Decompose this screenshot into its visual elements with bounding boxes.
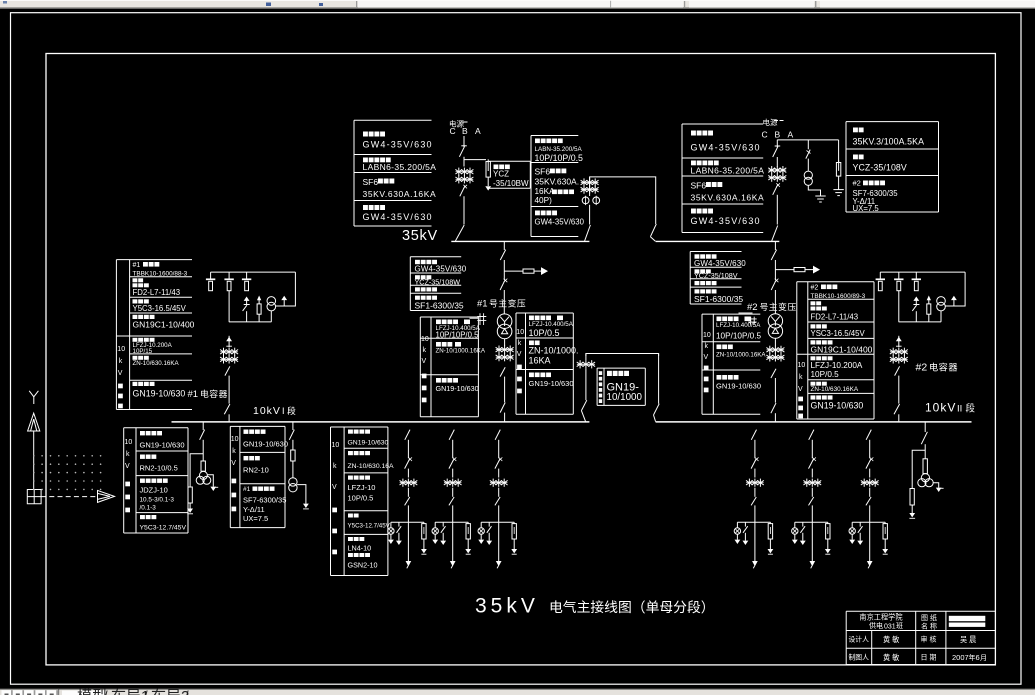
35kV bus tie jumper (590, 177, 656, 179)
disconnector lower (866, 497, 871, 505)
svg-text:图 纸: 图 纸 (921, 613, 937, 622)
capacitor unit #1-c (242, 272, 251, 291)
wire (463, 196, 465, 224)
right rail wire (276, 272, 296, 306)
table PT bay I (GN19/RN2/JDZJ/Y5C8) (124, 428, 188, 533)
breaker (751, 457, 758, 468)
svg-text:/: / (104, 688, 108, 695)
fuse PT-II (923, 459, 927, 474)
voltage transformer (3 windings) (918, 474, 933, 487)
disconnector QS1-3 to bus (455, 225, 464, 241)
svg-text:10: 10 (332, 442, 340, 449)
table #1 capacitor cubicle (116, 260, 192, 410)
label 10kV I段 (253, 405, 296, 417)
table xfmr1 10kV right (LFZJ/ZN/GN19) (516, 313, 573, 414)
label 隔离开关 GN19-10/630 (811, 395, 864, 410)
wire (452, 488, 454, 497)
wire to ground (808, 185, 820, 196)
svg-text:10.5-3/0.1-3: 10.5-3/0.1-3 (140, 497, 175, 504)
disconnector xfmr1-2 (500, 279, 507, 290)
live-line indicator branch (734, 522, 740, 544)
arrow up on rail (951, 296, 957, 306)
svg-text:SF1-6300/35: SF1-6300/35 (694, 294, 743, 304)
label 电流互感器 LABN-35.200/5A 10P/10P/0.5 (535, 139, 584, 164)
svg-text:#1: #1 (133, 262, 141, 269)
capacitor unit #1-b (224, 272, 233, 291)
svg-text:k: k (232, 448, 236, 455)
disconnector (895, 366, 900, 375)
svg-text:V: V (332, 484, 337, 491)
svg-text:k: k (705, 343, 709, 350)
svg-text:10: 10 (798, 362, 806, 369)
wire (534, 270, 542, 272)
capacitor bank #2 top rail (880, 271, 965, 273)
svg-text:10: 10 (125, 439, 133, 446)
neutral grounding glyph (748, 317, 757, 325)
svg-text:10P/10P/0.5: 10P/10P/0.5 (716, 331, 762, 340)
svg-text:35KV.630A.: 35KV.630A. (535, 177, 580, 187)
wire (811, 440, 813, 459)
feeder arrow-up symbol (226, 336, 232, 347)
label 熔断器 LFZJ-10.200A 10P/15 (133, 338, 173, 355)
svg-text:UX=7.5: UX=7.5 (853, 204, 880, 213)
label 接地开关 GN19C1-10/400 (811, 340, 873, 354)
feeder bay II-1 disconnector upper (751, 430, 756, 440)
CT cluster II-1 (746, 479, 764, 487)
svg-text:#2: #2 (811, 284, 819, 291)
name bars (redacted) (949, 616, 986, 627)
svg-text:GW4-35V/630: GW4-35V/630 (363, 140, 433, 150)
label #1主变压器 SF1-6300/35 (415, 296, 464, 311)
disconnector lower (405, 497, 410, 505)
wire (774, 290, 776, 314)
PT output arrow (208, 475, 219, 491)
wire (774, 378, 776, 403)
disconnector xfmr2-2 (771, 279, 778, 290)
disconnector (289, 430, 294, 440)
tab labels 模型 布局1 布局2 (cropped) (62, 688, 189, 695)
table incoming-2 right (fuse/arrester/#2 station xfmr) (846, 122, 939, 212)
svg-text:k: k (423, 347, 427, 354)
earthing switch branch (486, 522, 492, 545)
svg-text:2007: 2007 (952, 653, 969, 662)
disconnector (921, 432, 927, 444)
disconnector (771, 403, 776, 413)
svg-text:号主变压: 号主变压 (489, 298, 526, 309)
svg-text:I: I (282, 406, 285, 416)
label 断路器 ZN-10/1000.16KA (529, 341, 579, 366)
label SF6断路器 35KV.630A.16KA(40P) (535, 167, 580, 206)
table incoming-1 left (GW4/LABN6/SF6/GW4) (354, 120, 432, 226)
svg-text:Y-Δ/11: Y-Δ/11 (243, 505, 265, 514)
arrester branch (465, 522, 471, 554)
contact tick (775, 145, 781, 147)
wire (407, 488, 409, 497)
disconnector tie-10 left (581, 400, 586, 421)
svg-text:RN2-10: RN2-10 (243, 466, 269, 475)
wire fuse branch (504, 270, 523, 272)
live-line indicator branch (478, 522, 484, 544)
label 避雷器 YSC3-16.5/45V (811, 324, 866, 338)
live-line indicator branch (432, 522, 438, 544)
arrester branch (257, 297, 261, 322)
label 电流互感器 LFZJ-10.400/5A 10P/0.5 (529, 316, 574, 339)
cable wire (811, 505, 813, 561)
arrester F1 (YCZ-35) (485, 159, 491, 190)
tap rail (852, 521, 885, 523)
label 隔离开关 GN19-10/630 (243, 430, 288, 449)
title block frame (846, 611, 995, 664)
feeder bay II-2 disconnector upper (809, 430, 814, 440)
10kV bus tie jumper (586, 354, 659, 357)
column text 10kV开关柜 (421, 336, 429, 402)
svg-text:GN19-10/630: GN19-10/630 (716, 382, 761, 391)
wire (452, 440, 454, 459)
label 电抗器 FD2-L7-11/43 (811, 301, 859, 321)
CT cluster xfmr2 10kV (766, 346, 784, 362)
svg-text:Y5C3-12.7/45V: Y5C3-12.7/45V (140, 525, 187, 532)
wire (504, 339, 506, 346)
svg-text:LFZJ-10.200A: LFZJ-10.200A (811, 361, 863, 370)
svg-text:Y5C3-12.7/45V: Y5C3-12.7/45V (348, 523, 391, 530)
label 电流互感器 LFZJ-10.400/5A 10P/10P/0.5 (436, 320, 481, 340)
svg-text:LFZJ-10.400/5A: LFZJ-10.400/5A (716, 322, 761, 329)
svg-text:ZN-10/1000.16KA: ZN-10/1000.16KA (436, 348, 486, 355)
cable wire (754, 505, 756, 561)
svg-text:月: 月 (980, 654, 987, 662)
feeder bay I-3 disconnector upper (495, 430, 500, 440)
svg-text:k: k (518, 340, 522, 347)
wire arrester branch 1 (464, 159, 486, 161)
disconnector xfmr1-35kV (500, 250, 505, 260)
label 电流互感器 LABN6-35.200/5A (row2) (363, 158, 437, 173)
capacitor unit #2-c (912, 272, 921, 291)
output arrow (297, 485, 309, 509)
grounding switch branch (243, 297, 250, 322)
cable wire (407, 505, 409, 561)
svg-text:LFZJ-10: LFZJ-10 (348, 483, 376, 492)
tap rail (435, 521, 468, 523)
CT cluster I-3 (490, 479, 508, 487)
svg-text:YCZ: YCZ (493, 170, 509, 179)
svg-text:10: 10 (117, 346, 125, 353)
disconnector tie-35 right (650, 224, 656, 241)
svg-text:V: V (517, 351, 522, 358)
svg-text:RN2-10/0.5: RN2-10/0.5 (140, 464, 178, 473)
earthing switch branch (800, 522, 806, 545)
wire (292, 461, 294, 478)
label #1电容器 TBBK10-1600/88-3 (133, 262, 188, 278)
wire fuse branch (775, 269, 794, 271)
disconnector tie-10 right (654, 404, 660, 422)
column text 10kV开关柜 (703, 332, 711, 392)
table station xfmr bay (GN19/RN2/SF7) (230, 426, 285, 527)
svg-text:GN19C1-10/400: GN19C1-10/400 (133, 320, 195, 330)
svg-text:ZN-10/630.16KA: ZN-10/630.16KA (811, 386, 859, 393)
fuse RN2-10 (291, 450, 295, 461)
wire (503, 290, 505, 314)
CT cluster II-3 (861, 479, 879, 487)
label 隔离开关 GW4-35V/630 (691, 209, 761, 227)
neutral grounding glyph (477, 313, 486, 325)
CT cluster incoming-2 (768, 166, 786, 182)
wire (498, 469, 500, 478)
label 图纸名称 (921, 613, 937, 631)
wire (811, 469, 813, 478)
svg-text:10P/0.5: 10P/0.5 (529, 328, 560, 338)
PT output arrow (933, 483, 943, 492)
label 电抗器 FD2-L7-11/43 (133, 278, 181, 297)
CT cluster II-2 (803, 479, 821, 487)
phase labels C B A (source 1) (450, 126, 482, 136)
CT ring B (593, 196, 600, 205)
svg-text:35KV.3/100A.5KA: 35KV.3/100A.5KA (853, 137, 925, 147)
station transformer (two windings) (289, 478, 297, 492)
svg-text:35kV: 35kV (402, 228, 438, 244)
right rail wire (945, 272, 965, 306)
tap rail (737, 521, 770, 523)
label 隔离开关 GW4-35V/630 (row4) (363, 205, 433, 222)
breaker (449, 457, 456, 468)
CT cluster #2 feeder (890, 348, 908, 364)
label 电流互感器 LFZJ-10.400/5A 10P/10P/0.5 (716, 317, 762, 341)
svg-text:V: V (798, 386, 803, 393)
svg-text:TBBK10-1600/89-3: TBBK10-1600/89-3 (811, 293, 866, 300)
label #1 电容器 (188, 388, 228, 400)
svg-text:V: V (704, 354, 709, 361)
svg-text:YSC3-16.5/45V: YSC3-16.5/45V (811, 329, 866, 338)
label 南京工程学院 供电031班 (859, 613, 903, 631)
label 隔离开关 GN19-10/630 (140, 431, 185, 450)
svg-text:40P): 40P) (535, 196, 553, 205)
label 断路器 GN19-10/1000 (607, 371, 643, 403)
fuse xfmr2 branch (794, 268, 805, 272)
disconnector QS1-2 (460, 185, 467, 197)
svg-text:名 称: 名 称 (921, 622, 937, 631)
label 电流互感器 LABN6-35.200/5A (691, 161, 765, 176)
svg-text:B: B (775, 129, 781, 139)
arrester incoming-2 (836, 140, 840, 190)
label 主变压器 header (415, 287, 437, 291)
svg-text:GN19-10/630: GN19-10/630 (811, 401, 864, 411)
wire incoming-2 drop (776, 140, 778, 148)
CT cluster incoming-1 (455, 168, 473, 184)
svg-text:V: V (118, 370, 123, 377)
toolbar strip (cropped application toolbar) (0, 0, 1035, 9)
bottom rail (229, 321, 272, 323)
disconnector lower (809, 497, 814, 505)
svg-text:#2: #2 (853, 179, 861, 188)
label 隔离开关 GN19-10/630 (436, 378, 479, 393)
tap rail (795, 521, 828, 523)
35kV bus section II (656, 240, 780, 242)
label 隔离开关 GW4-35V/630 (694, 254, 746, 268)
wire tie left leg (585, 354, 587, 361)
earthing switch branch (743, 522, 749, 545)
earthing switch branch (440, 522, 446, 545)
svg-text:A: A (788, 129, 794, 139)
svg-text:LN4-10: LN4-10 (348, 544, 372, 553)
wire (807, 159, 809, 171)
arrester (188, 487, 192, 509)
wire (811, 488, 813, 497)
wire (774, 260, 776, 280)
capacitor unit #1-a (206, 272, 215, 291)
svg-text:GN19-10/630: GN19-10/630 (436, 384, 479, 393)
wire xfmr2 from bus (774, 241, 776, 250)
column text 10kV开关柜 (231, 436, 239, 511)
svg-text:GW4-35V/630: GW4-35V/630 (535, 218, 585, 227)
svg-text:制图人: 制图人 (849, 653, 870, 662)
CT cluster tie-10 (577, 360, 595, 368)
voltage transformer 2 circles (804, 171, 812, 185)
wire (504, 377, 506, 403)
UCS icon origin box (27, 490, 41, 504)
svg-text:电源: 电源 (763, 117, 778, 127)
fuse xfmr1 branch (523, 269, 534, 273)
wire (585, 369, 587, 401)
svg-text:10P/0.5: 10P/0.5 (811, 370, 840, 379)
wire (774, 338, 776, 346)
svg-text:10P/10P/0.5: 10P/10P/0.5 (535, 153, 584, 163)
tap rail (481, 521, 514, 523)
label 隔离开关 GW4-35V/630 (691, 131, 761, 153)
table xfmr1 10kV left (LFZJ/ZN/GN19) (420, 317, 478, 417)
svg-text:FD2-L7-11/43: FD2-L7-11/43 (133, 288, 181, 297)
arrester (910, 489, 914, 514)
svg-text:黄 敏: 黄 敏 (883, 635, 899, 644)
label 隔离开关 GN19-10/630 (133, 382, 186, 399)
phase labels C B A (source 2) (762, 129, 794, 139)
bottom rail (899, 321, 942, 323)
svg-text:10: 10 (703, 332, 711, 339)
svg-text:10: 10 (231, 436, 239, 443)
arrester branch (882, 522, 888, 554)
cable wire (498, 505, 500, 561)
label 隔离开关 GN19-10/630 (529, 373, 574, 389)
label 隔离开关 GW4-35V/630 (415, 260, 467, 274)
svg-text:设计人: 设计人 (849, 635, 870, 644)
svg-text:GN19-10/630: GN19-10/630 (348, 440, 389, 447)
arrester branch (927, 297, 931, 322)
svg-text:V: V (125, 463, 130, 470)
feeder bay I-1 disconnector upper (405, 430, 410, 440)
wire (452, 469, 454, 478)
svg-text:ZN-10/630.16KA: ZN-10/630.16KA (133, 360, 180, 367)
cable end arrow (810, 562, 814, 569)
label 避雷器 YCZ-35/108V (853, 155, 907, 173)
svg-text:10P/10P/0.5: 10P/10P/0.5 (436, 331, 480, 340)
svg-text:FD2-L7-11/43: FD2-L7-11/43 (811, 313, 859, 322)
wire xfmr1 from bus (503, 241, 505, 250)
wire (754, 488, 756, 497)
disconnector xfmr2-35kV (771, 250, 776, 260)
wire (924, 444, 926, 459)
column text 10kV开关柜 (117, 346, 125, 408)
label #2电容器 TBBK10-1600/89-3 (811, 284, 866, 300)
svg-text:GN19C1-10/400: GN19C1-10/400 (811, 345, 873, 355)
label 避雷器 Y5C3-12.7/45V (140, 515, 187, 532)
wire (869, 488, 871, 497)
cable end arrow (497, 562, 501, 569)
svg-text:-35/10BW: -35/10BW (493, 179, 529, 188)
arrester branch (768, 522, 774, 554)
svg-text:ZN-10/1000.16KA: ZN-10/1000.16KA (716, 352, 766, 359)
label 避雷器 Y5C3-12.7/45V (348, 514, 391, 530)
label #2所用变压器 SF7-6300/35 Y-Δ/11 UX=7.5 (853, 179, 899, 213)
label SF6断路器 35KV.630A.16KA (691, 181, 765, 203)
svg-text:YCZ-35/108W: YCZ-35/108W (415, 277, 461, 286)
svg-text:GW4-35V/630: GW4-35V/630 (691, 216, 761, 226)
neutral wire (470, 317, 479, 319)
table #2 xfmr 35kV side (GW4/YCZ/SF1) (690, 252, 741, 305)
disconnector (500, 403, 505, 413)
UCS icon X axis arrow (98, 490, 115, 502)
CT cluster #1 feeder (220, 348, 238, 364)
wire (869, 440, 871, 459)
svg-text:35KV.630A.16KA: 35KV.630A.16KA (691, 193, 765, 203)
breaker (866, 457, 873, 468)
disconnector tie-35 left (585, 225, 591, 241)
svg-text:SF7-6300/35: SF7-6300/35 (243, 496, 286, 505)
CT cluster I-2 (444, 479, 462, 487)
svg-text:GW4-35V/630: GW4-35V/630 (691, 143, 761, 153)
wire (228, 376, 230, 404)
label 主变压器 header (695, 281, 717, 285)
svg-text:16KA: 16KA (529, 356, 551, 366)
svg-text:南京工程学院: 南京工程学院 (859, 613, 902, 622)
label 断路器 ZN-10/1000.16KA (436, 342, 486, 355)
wire (407, 469, 409, 478)
cable wire (869, 505, 871, 561)
35kV bus section I (451, 240, 589, 242)
svg-text:供电: 供电 (869, 621, 883, 630)
table incoming-1 right (LABN/SF6/GW4) (531, 136, 578, 237)
svg-text:班: 班 (896, 621, 903, 630)
svg-text:ZN-10/1000.: ZN-10/1000. (529, 346, 579, 356)
label #2 电容器 (916, 362, 959, 374)
discharge coil (two circles) (937, 297, 946, 322)
svg-text:C: C (762, 129, 768, 139)
column text 10kV开关柜 (798, 362, 806, 418)
arrester branch (825, 522, 831, 554)
date 2007年6月 (952, 653, 987, 662)
cable end arrow (406, 562, 410, 569)
wire (498, 440, 500, 459)
label 10kV II段 (925, 400, 976, 414)
label 断路器 ZN-10/1000.16KA (716, 345, 766, 359)
svg-text:k: k (799, 374, 803, 381)
label 隔离开关 GW4-35V/630 (535, 211, 585, 227)
disconnector (771, 369, 776, 378)
disconnector (224, 404, 230, 414)
wire (292, 440, 294, 450)
svg-text:A: A (475, 126, 481, 136)
grounding switch branch (912, 297, 919, 322)
column text 10kV开关柜 (332, 442, 340, 554)
wire (504, 413, 506, 422)
svg-text:LABN6-35.200/5A: LABN6-35.200/5A (363, 162, 437, 172)
wire station-bay from bus (292, 422, 294, 430)
10kV bus section I (172, 421, 590, 423)
wire (503, 260, 505, 280)
feeder wire from center capacitor (898, 291, 900, 322)
wire PT-bay-I from bus (202, 422, 204, 430)
column text 10kV开关柜 (516, 329, 524, 393)
svg-text:YCZ-35/108V: YCZ-35/108V (694, 271, 738, 280)
svg-text:ZN-10/630.16A: ZN-10/630.16A (348, 463, 395, 470)
label #2主变压器 SF1-6300/35 (694, 289, 743, 304)
